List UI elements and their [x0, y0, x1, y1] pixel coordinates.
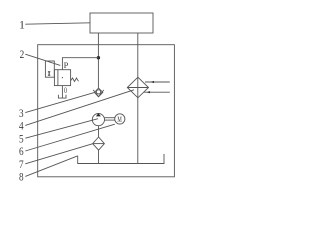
pump flow triangle	[96, 113, 101, 116]
wire: return pipe from reservoir down to cooler	[137, 33, 139, 98]
svg-text:8: 8	[19, 170, 24, 184]
leader line 7	[25, 144, 92, 164]
check valve diamond	[94, 88, 102, 97]
svg-text:M: M	[117, 115, 122, 124]
leader line 4	[25, 90, 134, 126]
leader line 5	[25, 119, 98, 139]
oil tank symbol	[78, 154, 164, 164]
check valve ball	[96, 90, 100, 94]
coolant line lower	[144, 91, 170, 93]
power unit enclosure	[38, 45, 175, 177]
wire: return pipe into tank	[137, 98, 139, 164]
leader line 1	[25, 23, 90, 24]
leader line 6	[25, 124, 115, 151]
motor circle	[115, 114, 125, 124]
wire: valve drain pipe	[61, 86, 63, 99]
svg-text:0: 0	[64, 86, 67, 95]
strainer diamond	[93, 137, 105, 150]
cooler chord	[127, 87, 148, 89]
drive shaft lower line	[105, 119, 115, 121]
leader line 3	[25, 93, 94, 113]
cooler/filter diamond	[127, 77, 148, 98]
relief valve internal divider	[57, 70, 59, 86]
leader line 2	[25, 54, 60, 65]
coolant line upper	[145, 81, 170, 83]
pilot box	[45, 61, 54, 77]
coolant arrow lower	[147, 91, 151, 93]
svg-text:1: 1	[19, 18, 25, 32]
wire: pilot branch to valve P port	[62, 58, 98, 70]
svg-text:P: P	[64, 60, 69, 70]
leader line 8	[25, 156, 77, 177]
wire: pump suction pipe	[98, 126, 100, 137]
wire: pressure pipe from reservoir down to pump	[97, 33, 99, 88]
drain tank symbol	[58, 95, 66, 98]
pilot port mark	[48, 72, 50, 75]
relief valve center dot	[62, 77, 63, 78]
coolant arrow upper	[151, 81, 155, 83]
wire: strainer to tank	[98, 150, 100, 163]
svg-text:2: 2	[20, 47, 25, 61]
spring of relief valve	[71, 78, 79, 82]
relief valve 2 body	[54, 70, 70, 86]
node junction dot	[97, 56, 100, 59]
reservoir tank (component 1)	[90, 13, 153, 33]
check valve seat	[93, 90, 98, 97]
strainer chord	[93, 143, 105, 145]
drive shaft upper line	[105, 117, 115, 119]
pump circle	[92, 114, 104, 126]
